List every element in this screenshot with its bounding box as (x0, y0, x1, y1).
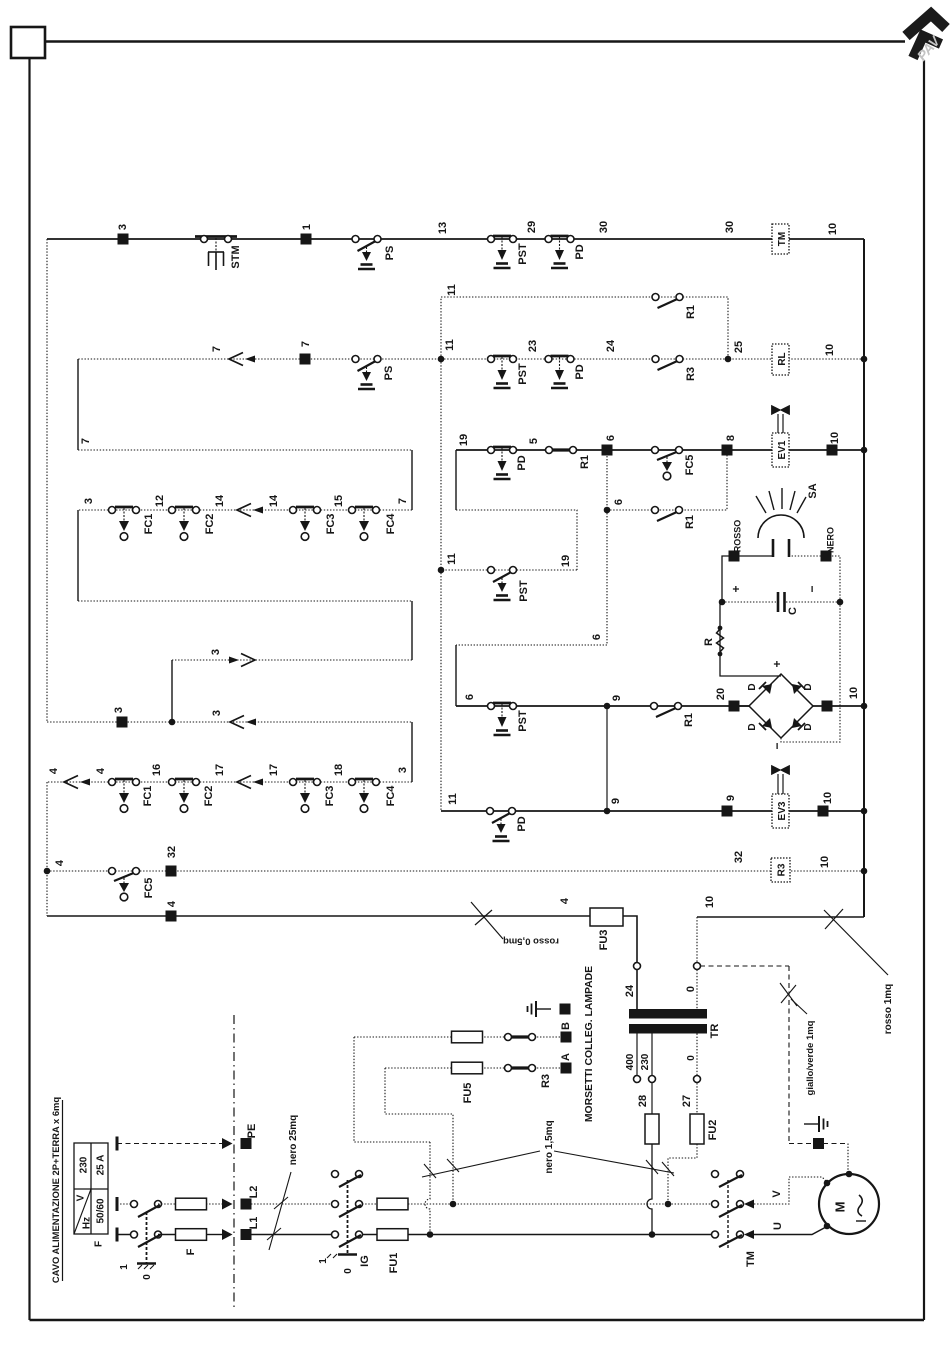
svg-text:230: 230 (640, 1053, 651, 1070)
svg-text:27: 27 (681, 1095, 693, 1107)
svg-text:R3: R3 (685, 367, 697, 381)
svg-text:25 A: 25 A (96, 1155, 107, 1176)
svg-text:FC2: FC2 (203, 786, 215, 807)
svg-text:15: 15 (333, 495, 345, 507)
svg-text:3: 3 (211, 710, 223, 716)
svg-text:11: 11 (447, 793, 459, 805)
svg-text:7: 7 (397, 498, 409, 504)
svg-text:B: B (560, 1022, 572, 1030)
svg-text:10: 10 (848, 687, 860, 699)
svg-text:M: M (833, 1202, 848, 1213)
supply terminal bar L2 (116, 1197, 118, 1211)
svg-text:FU3: FU3 (598, 930, 610, 951)
svg-text:3: 3 (210, 649, 222, 655)
contact TM pole U (712, 1231, 744, 1247)
svg-text:FC3: FC3 (325, 514, 337, 535)
fuse FU3 (590, 908, 623, 926)
svg-text:U: U (772, 1222, 784, 1230)
terminal circle 0 primary (694, 963, 701, 970)
svg-text:18: 18 (333, 764, 345, 776)
wire bridge to terminal 10 (813, 705, 864, 707)
terminal 9 (722, 806, 733, 817)
contact R1 y510 (652, 507, 683, 522)
contact R3 row2 (652, 356, 683, 371)
svg-text:MORSETTI COLLEG. LAMPADE: MORSETTI COLLEG. LAMPADE (584, 966, 595, 1122)
svg-text:Hz: Hz (82, 1217, 93, 1229)
svg-text:19: 19 (560, 555, 572, 567)
svg-text:R3: R3 (777, 863, 788, 876)
node 9 junction row706 (604, 703, 611, 710)
terminal circle 24 (634, 963, 641, 970)
svg-text:PS: PS (384, 246, 396, 261)
wire L2 entry (117, 1203, 134, 1205)
svg-text:6: 6 (591, 634, 603, 640)
svg-text:10: 10 (829, 432, 841, 444)
terminal 10 row706 (822, 701, 833, 712)
svg-text:1: 1 (119, 1264, 130, 1270)
svg-text:19: 19 (458, 434, 470, 446)
svg-text:R1: R1 (685, 305, 697, 319)
contact R3 line B (505, 1034, 536, 1041)
svg-text:14: 14 (268, 494, 280, 507)
svg-text:1: 1 (301, 224, 313, 230)
svg-text:11: 11 (444, 339, 456, 351)
svg-text:ROSSO: ROSSO (733, 520, 743, 553)
fuse F L1 (176, 1229, 207, 1241)
svg-text:9: 9 (610, 798, 622, 804)
secondary tap 230 (651, 1034, 653, 1115)
terminal 6 (602, 445, 613, 456)
svg-text:3: 3 (113, 707, 125, 713)
pressure switch PS row2 (352, 356, 381, 390)
switch IG pole L1 (332, 1231, 363, 1247)
chevron arrow net17 (237, 776, 263, 789)
svg-text:24: 24 (624, 984, 636, 997)
svg-text:R1: R1 (684, 515, 696, 529)
svg-text:PD: PD (574, 244, 586, 259)
chevron arrow net3 (230, 716, 256, 729)
svg-text:CAVO ALIMENTAZIONE 2P+TERRA x: CAVO ALIMENTAZIONE 2P+TERRA x 6mq (50, 1097, 61, 1283)
svg-text:F: F (94, 1241, 105, 1247)
wire 28 to L1 bus with hop (647, 1144, 652, 1234)
svg-text:A: A (560, 1053, 572, 1061)
svg-text:D: D (747, 723, 758, 730)
frame bottom line (30, 1319, 925, 1322)
terminal PE motor (813, 1138, 824, 1149)
contact R1 (branch) (652, 294, 683, 309)
svg-text:−: − (805, 585, 819, 592)
svg-text:PD: PD (516, 455, 528, 470)
svg-text:3: 3 (117, 224, 129, 230)
junction at rail row870 (861, 868, 868, 875)
wire bridge plus to resistor (734, 705, 749, 707)
wire net19 loop (455, 450, 457, 510)
svg-text:17: 17 (214, 764, 226, 776)
fuse FU1 L1 (377, 1229, 408, 1241)
contact TM pole top unused (712, 1171, 744, 1188)
capacitor C (722, 592, 840, 612)
resistor R (717, 626, 724, 657)
arrow PE (222, 1138, 233, 1149)
svg-text:FU2: FU2 (707, 1120, 719, 1141)
svg-text:FU5: FU5 (462, 1083, 474, 1104)
svg-text:4: 4 (54, 859, 66, 866)
pushbutton PD row1 (545, 236, 574, 269)
terminal ROSSO (729, 551, 740, 562)
svg-text:TM: TM (745, 1251, 757, 1267)
node junction rail4 (44, 868, 51, 875)
fuse F L2 (176, 1198, 207, 1210)
svg-text:13: 13 (437, 222, 449, 234)
svg-text:3: 3 (397, 767, 409, 773)
wire bridge minus to C (781, 602, 840, 742)
svg-text:17: 17 (268, 764, 280, 776)
svg-text:C: C (787, 607, 799, 615)
svg-text:RL: RL (777, 352, 788, 365)
svg-text:rosso 1mq: rosso 1mq (883, 984, 894, 1035)
terminal 3 row722 (117, 717, 128, 728)
svg-text:PST: PST (517, 363, 529, 385)
pushbutton PST y570 (488, 567, 517, 601)
svg-text:FU1: FU1 (388, 1253, 400, 1274)
wire V to motor (754, 1177, 827, 1204)
junction at rail row706 (861, 703, 868, 710)
svg-text:0: 0 (343, 1268, 354, 1274)
svg-text:PD: PD (574, 364, 586, 379)
node 11 junction (438, 356, 445, 363)
logo mark (906, 14, 946, 64)
chevron arrow net7 (229, 353, 255, 366)
wire net11 vertical (440, 359, 442, 811)
svg-text:400: 400 (625, 1053, 636, 1070)
svg-text:4: 4 (48, 767, 60, 774)
switch IG pole L2 (332, 1201, 363, 1218)
svg-text:3: 3 (83, 498, 95, 504)
svg-text:V: V (771, 1190, 783, 1198)
signal lamp SA (756, 488, 806, 557)
svg-text:R3: R3 (540, 1074, 552, 1088)
contact R1 row706 (651, 703, 682, 718)
svg-text:FC1: FC1 (143, 514, 155, 535)
limit switch FC2 row782 (169, 779, 200, 813)
svg-text:+: + (729, 585, 743, 592)
svg-text:12: 12 (154, 495, 166, 507)
solenoid valve EV1 (772, 406, 790, 434)
motor M (819, 1174, 879, 1234)
svg-text:16: 16 (151, 764, 163, 776)
node 11 junction y570 (438, 567, 445, 574)
svg-text:IG: IG (359, 1255, 371, 1267)
contact R3 line A (505, 1065, 536, 1072)
cable mark nero 1,5mq (422, 1151, 674, 1178)
arrow V (744, 1200, 754, 1209)
terminal PE (241, 1138, 252, 1149)
svg-text:9: 9 (725, 795, 737, 801)
svg-text:10: 10 (827, 223, 839, 235)
svg-text:FC1: FC1 (142, 786, 154, 807)
svg-text:230: 230 (79, 1156, 90, 1173)
frame left line (28, 58, 30, 1320)
svg-text:PD: PD (516, 816, 528, 831)
frame right line (923, 60, 925, 1320)
terminal 3 (118, 234, 129, 245)
svg-text:24: 24 (605, 339, 617, 352)
svg-text:30: 30 (724, 221, 736, 233)
secondary tap 400 (636, 1034, 638, 1080)
cable mark nero 25mq (267, 1172, 291, 1250)
svg-text:7: 7 (300, 341, 312, 347)
svg-text:L2: L2 (248, 1186, 260, 1199)
svg-text:nero 25mq: nero 25mq (288, 1115, 299, 1166)
svg-text:FC5: FC5 (684, 455, 696, 476)
terminal 1 (301, 234, 312, 245)
svg-text:rosso 0,5mq: rosso 0,5mq (503, 936, 559, 947)
svg-text:D: D (803, 683, 814, 690)
machine boundary dash-dot (233, 1015, 235, 1308)
fuse FU5 line B (452, 1031, 483, 1043)
fuse 28 (645, 1114, 659, 1144)
svg-text:0: 0 (142, 1274, 153, 1280)
svg-text:50/60: 50/60 (96, 1198, 107, 1223)
svg-text:28: 28 (637, 1095, 649, 1107)
node junction row722 (169, 719, 176, 726)
svg-text:F: F (185, 1248, 197, 1255)
limit switch FC3 (290, 507, 321, 541)
rating table (74, 1143, 108, 1247)
svg-text:FC4: FC4 (385, 513, 397, 535)
wire net9 vertical (606, 706, 608, 811)
coil RL (772, 344, 789, 375)
cable mark giallo/verde 1mq (780, 983, 807, 1014)
cable mark rosso 1mq (824, 909, 888, 975)
arrow L2 (222, 1199, 233, 1210)
right rail (net 10) (863, 239, 865, 917)
pushbutton PD row2 (545, 356, 574, 389)
ground symbol motor PE (804, 1116, 828, 1132)
limit switch FC5 row3 (652, 447, 683, 480)
wire R1 branch (441, 297, 728, 359)
svg-text:10: 10 (822, 792, 834, 804)
supply terminal bar L1 (116, 1228, 118, 1242)
svg-text:10: 10 (704, 896, 716, 908)
svg-text:NERO: NERO (826, 527, 836, 553)
wire PE entry (117, 1143, 222, 1145)
limit switch FC2 (169, 507, 200, 541)
rectifier bridge D (749, 674, 813, 738)
wire PST row y570 (441, 569, 577, 571)
limit switch FC5 row870 (109, 868, 140, 901)
coil R3 (771, 858, 790, 882)
limit switch FC1 row782 (109, 779, 140, 813)
svg-text:10: 10 (819, 856, 831, 868)
switch F pole L1 (131, 1231, 162, 1247)
node 9 junction row811 (604, 808, 611, 815)
wire L1 bus (251, 1234, 335, 1236)
underline CAVO (62, 1100, 64, 1281)
chevron arrow net14 (237, 504, 263, 517)
svg-text:PST: PST (517, 243, 529, 265)
contact R1 closed row3 (546, 447, 577, 454)
frame top line (45, 40, 905, 43)
svg-text:EV3: EV3 (777, 801, 788, 820)
pushbutton PST row1 (488, 236, 517, 269)
svg-text:FC4: FC4 (385, 785, 397, 807)
wire row1 (47, 238, 864, 240)
svg-text:giallo/verde 1mq: giallo/verde 1mq (805, 1020, 816, 1095)
svg-text:0: 0 (685, 986, 697, 992)
svg-text:V: V (76, 1194, 87, 1201)
terminal 10 row3 (827, 445, 838, 456)
svg-text:7: 7 (80, 438, 92, 444)
wire PE to motor (789, 1143, 848, 1145)
wire PE tap (700, 965, 789, 967)
wire lamp feed left (722, 556, 773, 602)
svg-text:PS: PS (383, 366, 395, 381)
svg-text:0: 0 (686, 1055, 697, 1061)
pushbutton PST row706 (488, 703, 517, 736)
ground terminal above B (560, 1004, 571, 1015)
coil TM (772, 224, 789, 254)
svg-text:D: D (803, 723, 814, 730)
junction at rail row2 (861, 356, 868, 363)
svg-text:PST: PST (517, 710, 529, 732)
wire serp row y450 (78, 449, 412, 451)
wire B down to L1 bus with hop (425, 1142, 430, 1234)
svg-text:14: 14 (214, 494, 226, 507)
svg-text:23: 23 (527, 340, 539, 352)
node junction 6-8 branch (604, 507, 611, 514)
svg-text:10: 10 (824, 344, 836, 356)
chevron arrow net4 left (64, 776, 90, 789)
terminal 10 row811 (818, 806, 829, 817)
svg-text:EV1: EV1 (777, 440, 788, 459)
svg-text:20: 20 (715, 688, 727, 700)
terminal 4 (166, 911, 177, 922)
svg-text:+: + (770, 660, 784, 667)
wire PE vertical (788, 966, 790, 1144)
svg-text:PST: PST (518, 580, 530, 602)
terminal B (561, 1032, 572, 1043)
svg-text:6: 6 (605, 435, 617, 441)
svg-text:7: 7 (211, 346, 223, 352)
svg-text:32: 32 (733, 851, 745, 863)
svg-text:PE: PE (246, 1124, 258, 1139)
wire row811 (441, 810, 864, 812)
svg-text:TR: TR (709, 1024, 721, 1039)
pushbutton PD row811 (487, 808, 516, 842)
fuse FU1 L2 (377, 1198, 408, 1210)
svg-text:D: D (747, 683, 758, 690)
svg-text:SA: SA (807, 483, 819, 498)
svg-text:11: 11 (446, 284, 458, 296)
node 25 junction (725, 356, 732, 363)
secondary tap 0 (696, 1034, 698, 1115)
frame corner box (11, 27, 45, 58)
wire R1-8 branch y510 (607, 450, 727, 510)
transformer TR windings (629, 1009, 707, 1034)
svg-text:L1: L1 (248, 1217, 260, 1230)
terminal L2 (241, 1199, 252, 1210)
wire row916 net10 (697, 916, 864, 918)
motor terminal dots (846, 1171, 853, 1178)
svg-text:32: 32 (166, 846, 178, 858)
svg-text:R1: R1 (579, 455, 591, 469)
wire row870 (47, 870, 864, 872)
wire FC row1 y510 (78, 509, 412, 511)
svg-text:9: 9 (611, 695, 623, 701)
wire net6 vertical from terminal 6 (456, 450, 607, 645)
wire serp row y722 (47, 721, 412, 723)
left rail (net 3) (46, 239, 48, 722)
wire row3 (456, 449, 864, 451)
limit switch FC4 (349, 507, 380, 541)
terminal L1 (241, 1229, 252, 1240)
junction at rail row3 (861, 447, 868, 454)
link TM (727, 1180, 729, 1248)
wire lamp feed right (789, 556, 840, 602)
svg-text:5: 5 (528, 438, 540, 444)
arrow L1 (222, 1229, 233, 1240)
supply terminal bar PE (116, 1137, 118, 1151)
svg-text:−: − (770, 742, 784, 749)
svg-text:FC3: FC3 (324, 786, 336, 807)
wire 27 to L2 bus (668, 1144, 697, 1204)
thermostat STM (195, 236, 237, 271)
contact TM pole V (712, 1201, 744, 1218)
svg-text:1: 1 (318, 1258, 329, 1264)
terminal A (561, 1063, 572, 1074)
wire lamp A (385, 1067, 566, 1069)
pressure switch PS row1 (352, 236, 381, 270)
junction at rail row811 (861, 808, 868, 815)
chevron arrow net3 right (229, 654, 255, 667)
switch IG pole top unused (332, 1171, 363, 1188)
wire row706 (456, 705, 749, 707)
terminal 8 (722, 445, 733, 456)
pushbutton PST row2 (488, 356, 517, 389)
switch IG link and handle (327, 1180, 357, 1258)
svg-text:nero 1,5mq: nero 1,5mq (544, 1120, 555, 1173)
svg-text:FC5: FC5 (143, 878, 155, 899)
switch F link and handle (137, 1212, 156, 1269)
svg-text:FC2: FC2 (204, 514, 216, 535)
solenoid valve EV3 (772, 766, 790, 795)
wire U to motor (754, 1227, 826, 1235)
terminal NERO (821, 551, 832, 562)
terminal 32 (166, 866, 177, 877)
limit switch FC3 row782 (290, 779, 321, 813)
terminal 20 (729, 701, 740, 712)
svg-text:4: 4 (95, 767, 107, 774)
svg-text:4: 4 (559, 897, 571, 904)
switch F pole L2 (131, 1201, 162, 1218)
svg-text:6: 6 (464, 694, 476, 700)
limit switch FC1 (109, 507, 140, 541)
svg-text:11: 11 (446, 553, 458, 565)
wire row916 net4 (47, 916, 637, 1009)
arrow U (744, 1230, 754, 1239)
svg-text:R1: R1 (683, 713, 695, 727)
fuse FU5 line A (452, 1062, 483, 1074)
svg-text:25: 25 (733, 341, 745, 353)
wire L2 bus (251, 1203, 335, 1205)
svg-text:6: 6 (613, 499, 625, 505)
cable mark rosso 0,5mq (471, 902, 503, 939)
pushbutton PD row3 (488, 447, 517, 480)
wire serp row y660 (172, 659, 412, 661)
svg-text:4: 4 (166, 900, 178, 907)
svg-text:STM: STM (230, 245, 242, 268)
